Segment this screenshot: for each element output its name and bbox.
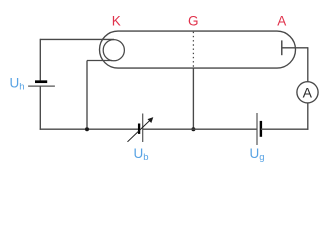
battery U_g bbox=[257, 113, 261, 145]
junction dot (cathode return / bottom wire) bbox=[85, 127, 89, 131]
wire bottom segment 2 bbox=[143, 128, 257, 130]
ammeter A1 bbox=[297, 82, 318, 103]
cathode K (filament circle) bbox=[103, 40, 124, 61]
battery U_h bbox=[28, 82, 55, 86]
tube envelope bbox=[100, 31, 296, 68]
wire left vertical upper bbox=[39, 39, 41, 81]
svg-text:A: A bbox=[303, 84, 313, 100]
svg-text:G: G bbox=[188, 13, 199, 28]
svg-text:A: A bbox=[277, 13, 286, 28]
wire right vertical upper bbox=[307, 47, 309, 82]
wire left vertical lower bbox=[39, 86, 41, 130]
wire bottom segment 3 bbox=[261, 128, 309, 130]
variable battery U_b bbox=[128, 114, 154, 143]
wire anode lead bbox=[282, 47, 308, 49]
wire grid lead bbox=[192, 68, 194, 129]
wire right vertical lower bbox=[307, 103, 309, 130]
wire cathode bottom lead bbox=[87, 60, 112, 62]
anode A (plate) bbox=[281, 40, 283, 55]
wire cathode return vertical bbox=[86, 61, 88, 130]
grid G (dotted electrode) bbox=[192, 32, 194, 68]
wire top (heater top lead) bbox=[40, 38, 114, 40]
wire bottom segment 1 bbox=[40, 128, 139, 130]
junction dot (grid lead / bottom wire) bbox=[191, 127, 195, 131]
svg-text:K: K bbox=[112, 14, 121, 29]
